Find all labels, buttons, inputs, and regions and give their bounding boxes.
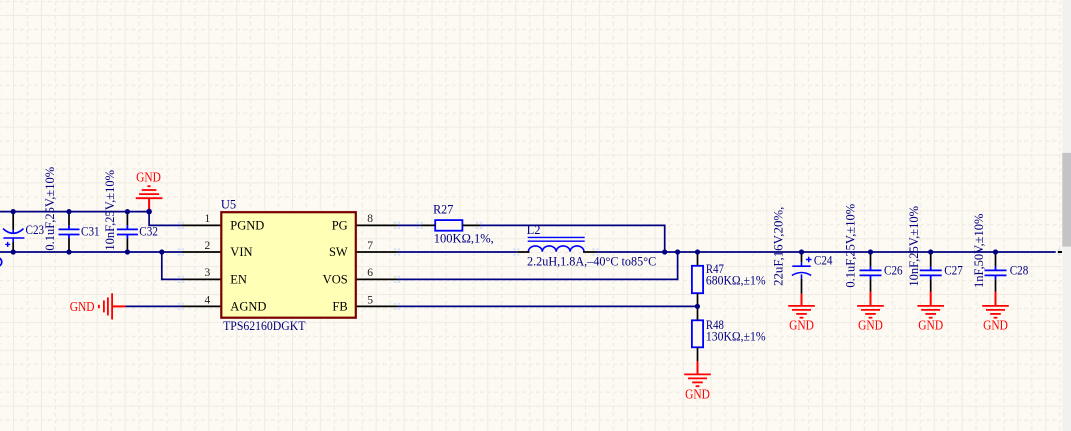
resistor R47 — [692, 266, 703, 293]
svg-text:SW: SW — [329, 245, 348, 259]
wire R27 to output rail — [480, 225, 665, 252]
svg-text:C27: C27 — [944, 263, 963, 277]
svg-text:2: 2 — [205, 240, 211, 252]
capacitor C26 — [860, 266, 882, 279]
end dash hotspot marker — [1058, 250, 1061, 255]
ground GND below C24 — [788, 294, 815, 318]
svg-text:0.1uF,25V,±10%: 0.1uF,25V,±10% — [43, 167, 57, 251]
svg-text:10nF,25V,±10%: 10nF,25V,±10% — [103, 170, 117, 251]
svg-text:C28: C28 — [1010, 263, 1029, 277]
pin 3 stub — [182, 278, 221, 280]
C31 stems — [68, 212, 70, 252]
svg-text:0.1uF,25V,±10%: 0.1uF,25V,±10% — [843, 204, 857, 288]
pin 1 stub — [182, 224, 221, 226]
svg-text:TPS62160DGKT: TPS62160DGKT — [223, 319, 306, 333]
pin 8 stub — [357, 224, 398, 226]
ground GND below C26 — [857, 292, 884, 318]
junction node output rail at VOS — [675, 249, 680, 254]
junction node output rail at R27 — [662, 249, 667, 254]
svg-text:GND: GND — [983, 318, 1008, 333]
ground GND below C28 — [982, 292, 1009, 318]
svg-text:U5: U5 — [221, 198, 236, 212]
svg-text:C31: C31 — [81, 225, 100, 239]
svg-text:GND: GND — [70, 299, 95, 314]
junction node rail A at C31 — [66, 209, 71, 214]
svg-text:2.2uH,1.8A,–40°C to85°C: 2.2uH,1.8A,–40°C to85°C — [527, 255, 656, 269]
C24 plus sign — [806, 257, 812, 263]
L2 stubs — [517, 251, 596, 253]
op IC U5 body — [221, 212, 355, 318]
pin 6 stub — [357, 278, 398, 280]
scrollbar track — [1062, 0, 1071, 431]
capacitor C28 — [985, 266, 1007, 279]
C32 stems — [126, 212, 128, 252]
ground GND below R48 — [684, 361, 711, 386]
C27 stems — [930, 252, 932, 292]
svg-text:VOS: VOS — [323, 273, 348, 287]
C28 stems — [995, 252, 997, 292]
svg-text:6: 6 — [367, 267, 373, 279]
svg-text:C26: C26 — [884, 263, 903, 277]
junction node rail B at EN branch — [159, 249, 164, 254]
svg-text:680KΩ,±1%: 680KΩ,±1% — [706, 274, 766, 288]
svg-text:R27: R27 — [433, 202, 453, 216]
svg-text:100KΩ,1%,: 100KΩ,1%, — [434, 232, 494, 246]
C23 plus sign — [5, 242, 10, 247]
svg-text:C23: C23 — [26, 223, 45, 237]
pin 7 stub — [357, 251, 398, 253]
ground GND top (above C32 node) — [136, 186, 163, 211]
junction node rail B at C23 — [11, 249, 16, 254]
R27 stubs — [421, 224, 480, 226]
junction node output rail at C28 — [993, 249, 998, 254]
wire end hotspot markers — [178, 223, 599, 309]
svg-text:AGND: AGND — [230, 300, 266, 314]
svg-text:PGND: PGND — [230, 218, 264, 232]
svg-text:FB: FB — [332, 300, 347, 314]
wire AGND to pin 4 — [126, 305, 183, 307]
wire rail A corner to pin 1 — [149, 212, 182, 226]
scrollbar thumb — [1062, 153, 1071, 247]
wire FB to divider — [398, 305, 697, 307]
svg-text:EN: EN — [230, 273, 247, 287]
C26 stems — [870, 252, 872, 292]
R47 stubs — [697, 252, 699, 306]
svg-text:GND: GND — [136, 170, 161, 185]
svg-text:GND: GND — [858, 318, 883, 333]
R48 stubs — [697, 306, 699, 361]
capacitor C31 — [59, 225, 80, 238]
svg-text:7: 7 — [367, 240, 373, 252]
svg-text:4: 4 — [205, 294, 211, 306]
svg-text:VIN: VIN — [230, 245, 252, 259]
pin 4 stub — [182, 305, 221, 307]
wire L2 to output rail right — [597, 251, 1056, 253]
svg-text:1: 1 — [205, 213, 211, 225]
wire rail B (VIN) — [0, 251, 182, 253]
svg-text:1nF,50V,±10%: 1nF,50V,±10% — [972, 214, 986, 288]
resistor R48 — [692, 320, 703, 347]
pin 5 stub — [357, 305, 398, 307]
pin 2 stub — [182, 251, 221, 253]
junction node rail A at C32 — [125, 209, 130, 214]
wire end dash right (off-sheet pin stub) — [1058, 251, 1062, 253]
svg-text:C24: C24 — [814, 253, 833, 267]
svg-text:GND: GND — [789, 318, 814, 333]
wire pin8 to R27 — [398, 224, 421, 226]
capacitor C24 (polarized) — [792, 262, 811, 278]
junction node rail A at C23 — [11, 209, 16, 214]
svg-text:8: 8 — [367, 213, 373, 225]
capacitor C32 — [117, 225, 138, 238]
svg-text:5: 5 — [367, 294, 373, 306]
wire VOS branch — [398, 252, 678, 279]
junction node rail A at GND — [146, 209, 152, 215]
junction node FB divider — [695, 304, 700, 309]
resistor R27 — [435, 220, 462, 231]
junction node output rail at C24 — [799, 249, 804, 254]
svg-text:130KΩ,±1%: 130KΩ,±1% — [706, 330, 766, 344]
junction node rail B at C31 — [66, 249, 71, 254]
svg-text:10nF,25V,±10%: 10nF,25V,±10% — [907, 206, 921, 287]
junction node output rail at C26 — [868, 249, 873, 254]
svg-text:PG: PG — [332, 218, 348, 232]
svg-text:GND: GND — [918, 318, 943, 333]
capacitor C23 (polarized) — [3, 229, 24, 242]
wire rail A (input top) — [0, 211, 149, 213]
wire EN branch — [162, 252, 182, 279]
left edge connector fragment — [0, 258, 2, 266]
ground GND below C27 — [917, 292, 944, 318]
svg-text:22uF,16V,20%,: 22uF,16V,20%, — [772, 207, 786, 286]
C24 stems — [801, 252, 803, 294]
junction node rail B at C32 — [125, 249, 130, 254]
svg-text:GND: GND — [685, 386, 710, 401]
inductor L2 — [528, 237, 585, 251]
svg-text:L2: L2 — [527, 223, 541, 237]
ground GND left (AGND) — [99, 293, 126, 319]
C23 stems — [12, 212, 14, 252]
junction node output rail at C27 — [928, 249, 933, 254]
junction node output rail at R47 — [695, 249, 700, 254]
capacitor C27 — [920, 266, 942, 279]
svg-text:C32: C32 — [139, 224, 158, 238]
svg-text:3: 3 — [205, 267, 211, 279]
wire SW to L2 — [398, 251, 517, 253]
